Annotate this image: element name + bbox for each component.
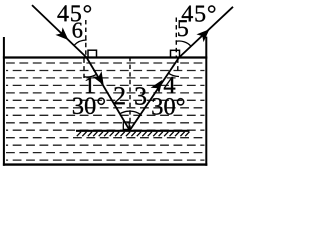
exit ray <box>179 7 233 58</box>
label R30: 30° <box>152 98 184 115</box>
refracted ray <box>87 58 130 131</box>
label a4: 4 <box>164 77 175 93</box>
label a2: 2 <box>114 87 124 104</box>
reflected ray up <box>130 58 179 131</box>
mirror <box>76 130 190 132</box>
right-angle square at mirror <box>123 122 129 129</box>
label R45: 45° <box>182 5 216 21</box>
container: right wall <box>205 37 207 166</box>
right-angle square right <box>171 50 180 57</box>
arc angle 1 (refraction) <box>84 74 97 77</box>
arc angle 4 <box>168 73 179 76</box>
normal (mirror, dashed) <box>129 57 131 130</box>
mirror hatching <box>77 132 190 136</box>
label a5: 5 <box>178 20 188 36</box>
arc angles 2 and 3 (at mirror normal) <box>120 111 141 114</box>
water surface <box>3 56 207 58</box>
normal (right, dashed) <box>175 18 177 58</box>
arc angle 5 (exit refraction) <box>176 41 191 46</box>
label a3: 3 <box>135 87 146 104</box>
arc angle 6 (incidence) <box>74 40 87 45</box>
label a1: 1 <box>86 78 94 94</box>
label L45: 45° <box>57 5 91 21</box>
container: left wall <box>3 37 5 166</box>
incident ray <box>32 5 87 57</box>
label a6: 6 <box>73 23 83 38</box>
container: bottom <box>3 163 207 165</box>
label L30: 30° <box>73 98 105 115</box>
right-angle square left <box>88 50 97 57</box>
normal (left, dashed) <box>85 20 87 57</box>
water (dashed fill rows) <box>6 63 205 160</box>
